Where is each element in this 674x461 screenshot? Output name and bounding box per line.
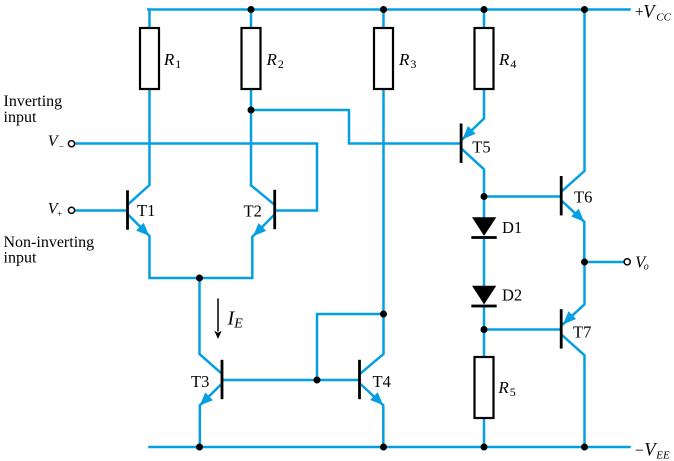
wire R1 top lead bbox=[148, 10, 151, 29]
svg-text:input: input bbox=[4, 109, 37, 126]
wire R1 bottom lead to T1 collector bbox=[129, 89, 150, 204]
label R1 bbox=[163, 50, 181, 71]
transistor T7 bbox=[560, 309, 576, 348]
label +Vcc bbox=[635, 2, 672, 23]
wire output node to Vo terminal bbox=[585, 261, 624, 264]
wire T6 emitter to output node bbox=[563, 202, 585, 263]
wire T2 collector bbox=[251, 110, 273, 204]
wire +Vcc top rail bbox=[148, 8, 629, 11]
transistor T2 bbox=[253, 190, 276, 236]
wire R4 top lead bbox=[483, 10, 486, 29]
wire -Vee bottom rail bbox=[150, 446, 630, 449]
label D2 bbox=[502, 285, 522, 304]
junction output node bbox=[581, 259, 588, 266]
svg-text:T2: T2 bbox=[244, 202, 262, 221]
wire R3 bottom lead to T4 collector bbox=[361, 89, 384, 373]
label Inverting input bbox=[4, 93, 63, 126]
resistor R5 bbox=[475, 357, 494, 418]
label V- bbox=[48, 133, 64, 153]
resistor R2 bbox=[242, 28, 261, 89]
svg-text:o: o bbox=[644, 262, 649, 273]
wire R2 bottom lead bbox=[250, 89, 253, 110]
wire R3 top lead bbox=[382, 10, 385, 29]
wire node B to T7 base bbox=[484, 328, 560, 331]
wire node below R2 to T5 base bbox=[251, 110, 460, 144]
wire R4 bottom lead to T5 emitter bbox=[463, 89, 484, 139]
junction below R2 bbox=[248, 107, 255, 114]
label -Vee bbox=[635, 441, 670, 461]
resistor R1 bbox=[140, 28, 159, 89]
svg-text:R: R bbox=[266, 50, 278, 69]
transistor T3 bbox=[200, 360, 224, 406]
wire D1 cathode to D2 anode bbox=[483, 238, 486, 287]
junction tail node bbox=[196, 275, 203, 282]
svg-text:EE: EE bbox=[655, 450, 670, 461]
svg-text:T6: T6 bbox=[574, 188, 592, 207]
junction node B bbox=[481, 326, 488, 333]
wire T4 emitter to bottom rail bbox=[361, 385, 383, 448]
svg-text:D1: D1 bbox=[502, 218, 522, 237]
wire D2 cathode to node B bbox=[483, 306, 486, 330]
junction top rail T6 bbox=[581, 6, 588, 13]
svg-text:T7: T7 bbox=[573, 323, 591, 342]
wire R5 bottom lead bbox=[483, 418, 486, 447]
svg-text:R: R bbox=[497, 378, 509, 397]
label R5 bbox=[497, 378, 515, 399]
label R2 bbox=[266, 50, 284, 71]
junction bottom rail R5 bbox=[481, 444, 488, 451]
svg-text:T5: T5 bbox=[472, 137, 490, 156]
label R3 bbox=[398, 50, 416, 71]
svg-text:−: − bbox=[59, 143, 64, 153]
label T6 bbox=[574, 188, 592, 207]
svg-text:E: E bbox=[233, 317, 243, 332]
transistor T4 bbox=[358, 360, 383, 405]
wire T3 emitter to bottom rail bbox=[200, 385, 221, 448]
junction T4 base tie bbox=[314, 377, 321, 384]
wire tail node down to T3 collector bbox=[200, 278, 222, 373]
wire node A to T6 base bbox=[484, 195, 560, 198]
svg-text:4: 4 bbox=[510, 57, 516, 71]
junction R3 T4 collector bbox=[380, 311, 387, 318]
svg-text:Non-inverting: Non-inverting bbox=[4, 234, 95, 251]
wire R2 top lead bbox=[250, 10, 253, 29]
transistor T6 bbox=[560, 176, 584, 222]
wire node A to D1 anode bbox=[483, 197, 486, 219]
label R4 bbox=[498, 50, 516, 71]
wire output node to T7 emitter bbox=[563, 262, 584, 324]
svg-text:3: 3 bbox=[410, 57, 416, 71]
junction top rail R4 bbox=[481, 6, 488, 13]
wire tail node to T2 emitter bbox=[200, 216, 274, 279]
junction node A bbox=[481, 193, 488, 200]
label T1 bbox=[137, 201, 155, 220]
wire node B to R5 top lead bbox=[483, 330, 486, 358]
svg-text:D2: D2 bbox=[502, 285, 522, 304]
label IE bbox=[227, 308, 244, 332]
diode D1 bbox=[471, 217, 496, 239]
svg-text:CC: CC bbox=[656, 12, 671, 24]
svg-text:−: − bbox=[635, 442, 644, 459]
svg-text:R: R bbox=[163, 50, 175, 69]
label T3 bbox=[191, 372, 209, 391]
arrow IE tail current bbox=[214, 298, 221, 339]
wire T3 base to T4 base bbox=[224, 379, 359, 382]
svg-text:T1: T1 bbox=[137, 201, 155, 220]
wire T4 base tie to collector bbox=[317, 314, 384, 380]
wire T1 emitter to tail node bbox=[129, 216, 200, 279]
svg-text:R: R bbox=[398, 50, 410, 69]
svg-text:input: input bbox=[4, 250, 37, 267]
svg-text:+: + bbox=[57, 210, 62, 220]
label T7 bbox=[573, 323, 591, 342]
wire T7 collector to bottom rail bbox=[563, 336, 585, 448]
diode D2 bbox=[471, 286, 496, 308]
transistor T1 bbox=[126, 190, 149, 236]
label Vo bbox=[635, 253, 649, 273]
terminal V+ bbox=[68, 207, 74, 213]
svg-text:T4: T4 bbox=[373, 372, 391, 391]
wire T5 collector to node A bbox=[463, 150, 485, 197]
svg-text:5: 5 bbox=[510, 385, 516, 399]
svg-text:R: R bbox=[498, 50, 510, 69]
resistor R4 bbox=[475, 28, 494, 89]
terminal V- bbox=[68, 141, 74, 147]
terminal Vo bbox=[624, 259, 630, 265]
junction bottom rail T3 bbox=[196, 444, 203, 451]
label D1 bbox=[502, 218, 522, 237]
junction top rail R2 bbox=[248, 6, 255, 13]
wire V+ input to T1 base bbox=[76, 209, 126, 212]
label T2 bbox=[244, 202, 262, 221]
wire T6 collector from top rail bbox=[563, 10, 585, 191]
junction bottom rail T7 bbox=[581, 444, 588, 451]
transistor T5 bbox=[460, 124, 476, 163]
svg-text:T3: T3 bbox=[191, 372, 209, 391]
junction bottom rail T4 bbox=[380, 444, 387, 451]
svg-text:Inverting: Inverting bbox=[4, 93, 63, 110]
svg-text:2: 2 bbox=[278, 57, 284, 71]
wire V- input to T2 base bbox=[75, 144, 317, 211]
label T4 bbox=[373, 372, 391, 391]
junction top rail R3 bbox=[380, 6, 387, 13]
svg-text:1: 1 bbox=[175, 57, 181, 71]
label T5 bbox=[472, 137, 490, 156]
label V+ bbox=[48, 200, 63, 220]
label Non-inverting input bbox=[4, 234, 95, 267]
resistor R3 bbox=[374, 28, 393, 89]
